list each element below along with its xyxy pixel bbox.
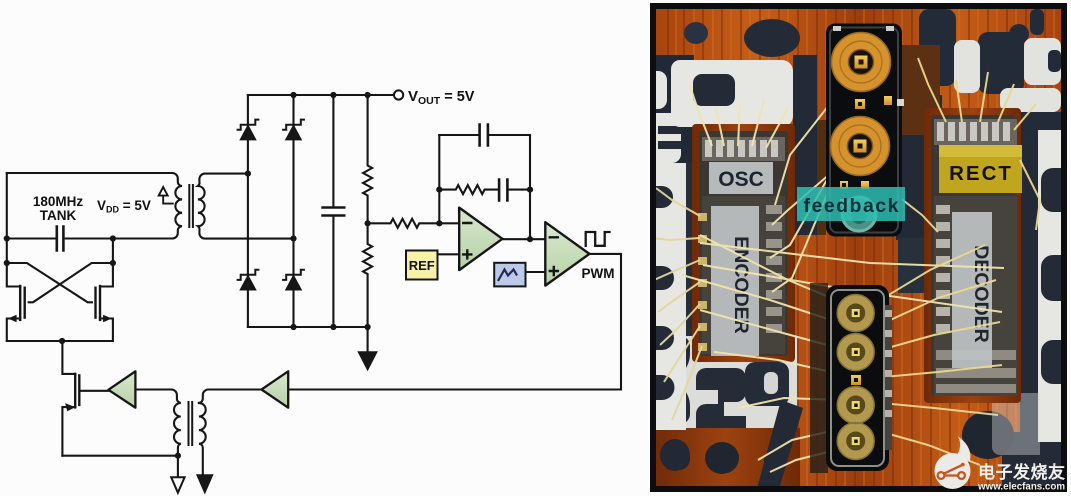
node common source xyxy=(59,338,65,344)
node top rail filter cap xyxy=(330,92,336,98)
transformer T1 primary winding xyxy=(171,173,182,239)
wire bridge left rail xyxy=(247,95,249,327)
diode D3 schottky bottom-left xyxy=(238,270,259,290)
white leadframe fingers right xyxy=(1038,130,1061,442)
coil L1 xyxy=(840,41,882,83)
comparator U2 PWM xyxy=(545,222,589,285)
diode D4 schottky bottom-right xyxy=(283,270,304,290)
node top rail divider xyxy=(365,92,371,98)
icon square wave xyxy=(586,232,610,246)
label RECT xyxy=(939,145,1022,193)
ground G2 open xyxy=(171,456,184,493)
coil L2 xyxy=(839,125,881,167)
wire PWM output right and down xyxy=(288,254,621,390)
text VOUT = 5V xyxy=(408,88,475,107)
svg-text:REF: REF xyxy=(409,258,435,273)
box sawtooth generator xyxy=(494,263,525,287)
white leadframe fingers left xyxy=(650,71,686,430)
dark ovals in orange top strip xyxy=(744,19,800,57)
power VDD supply arrow xyxy=(159,187,173,204)
wire tank right rail down xyxy=(100,239,113,287)
wire cross coupling right to left gate xyxy=(29,263,113,302)
bottom right silver shape xyxy=(992,393,1040,455)
transformer T2 primary winding xyxy=(135,390,180,456)
wire feedback left vertical xyxy=(438,135,440,223)
transistor M1 nmos left xyxy=(7,286,25,341)
node bottom rail right bridge xyxy=(290,324,296,330)
transistor Q3 nmos switch xyxy=(62,341,79,456)
text VDD = 5V xyxy=(97,198,151,215)
wire cross coupling left to right gate xyxy=(7,263,92,302)
node error amp inverting input xyxy=(436,220,442,226)
resistor R4 inner feedback xyxy=(439,185,498,194)
wire tank left rail down xyxy=(7,173,20,287)
capacitor C4 inner feedback xyxy=(499,180,507,201)
capacitor C2 outer feedback xyxy=(480,125,488,146)
ground G1 divider xyxy=(359,327,377,370)
wire buffer to Q3 gate xyxy=(81,390,109,392)
transformer T1 secondary winding xyxy=(198,174,294,239)
wire bridge bottom rail xyxy=(248,326,368,328)
wire sawtooth to PWM noninverting input xyxy=(526,271,546,273)
wire cross pair common source xyxy=(7,340,113,342)
wire bridge right rail xyxy=(292,95,294,327)
left chip ENCODER die xyxy=(692,124,795,362)
text 180MHz TANK xyxy=(33,194,84,223)
node error amp output xyxy=(527,236,533,242)
resistor R1 divider upper xyxy=(363,95,372,223)
node bottom rail divider xyxy=(365,324,371,330)
wire REF to noninverting input xyxy=(438,253,460,255)
node bottom rail filter cap xyxy=(330,324,336,330)
ground G3 filled xyxy=(197,475,212,493)
node tank right xyxy=(110,235,116,241)
svg-text:180MHz: 180MHz xyxy=(33,194,84,209)
bond wires left cluster xyxy=(682,64,1004,472)
bond wires right cluster xyxy=(868,58,1040,465)
wire primary bottom return xyxy=(62,455,177,457)
svg-text:VDD = 5V: VDD = 5V xyxy=(97,198,151,215)
wire buffer to transformer secondary xyxy=(199,390,262,403)
node tank left xyxy=(4,235,10,241)
capacitor C1 tank xyxy=(57,227,64,251)
node top rail right bridge xyxy=(290,92,296,98)
node secondary bottom to bridge right rail xyxy=(290,235,296,241)
watermark logo elecfans xyxy=(935,437,1066,493)
label ENCODER xyxy=(711,206,759,356)
white top-left pad xyxy=(671,60,793,127)
transformer T2 core xyxy=(189,402,193,445)
node secondary top to bridge left rail xyxy=(245,171,251,177)
transistor M2 nmos right xyxy=(96,286,113,341)
text PWM xyxy=(582,266,615,281)
wire inner loop right xyxy=(509,189,530,191)
node feedback inner branch left xyxy=(436,187,442,193)
label OSC xyxy=(709,162,773,194)
label DECODER xyxy=(952,212,992,368)
transformer T1 core xyxy=(189,185,193,227)
right chip DECODER die xyxy=(924,108,1021,403)
wire tank bottom rail left xyxy=(7,237,55,239)
node inner loop right xyxy=(527,187,533,193)
left die edge pads xyxy=(698,213,707,351)
op-amp U1 error amplifier xyxy=(459,208,502,271)
wire outer loop right vertical xyxy=(529,135,531,239)
resistor R2 divider lower xyxy=(363,223,372,327)
terminal VOUT circle xyxy=(394,90,403,99)
svg-text:feedback: feedback xyxy=(804,195,899,217)
wire error amp output to PWM xyxy=(502,238,545,240)
svg-text:电子发烧友: 电子发烧友 xyxy=(978,462,1065,482)
node cross left xyxy=(4,260,10,266)
capacitor C3 filter xyxy=(323,95,345,327)
diode D2 schottky top-right xyxy=(283,120,304,140)
transformer module top xyxy=(826,24,904,237)
small pads xyxy=(855,99,865,109)
wire cross pair source to Q3 drain xyxy=(61,340,63,342)
svg-text:OSC: OSC xyxy=(718,168,764,191)
node divider tap xyxy=(365,220,371,226)
wire outer loop top left xyxy=(439,134,478,136)
box REF xyxy=(406,251,438,280)
wire outer loop top right xyxy=(489,134,530,136)
svg-text:RECT: RECT xyxy=(949,162,1013,185)
bond wires to left leadframe xyxy=(652,188,702,420)
label feedback xyxy=(797,187,905,221)
transformer T2 secondary winding xyxy=(199,403,206,475)
transformer module bottom xyxy=(810,283,892,473)
diode D1 schottky top-left xyxy=(238,120,259,140)
resistor R3 tap to error amp xyxy=(368,219,459,228)
svg-text:TANK: TANK xyxy=(40,208,77,223)
svg-text:PWM: PWM xyxy=(582,266,615,281)
buffer U3 gate drive right xyxy=(262,371,289,407)
buffer U4 gate drive left xyxy=(108,371,135,407)
wire tank bottom rail right xyxy=(66,237,171,239)
dark substrate regions xyxy=(650,55,694,185)
wire tank top rail xyxy=(7,172,171,174)
wire bridge top rail xyxy=(248,94,394,96)
node cross right xyxy=(110,260,116,266)
svg-text:www.elecfans.com: www.elecfans.com xyxy=(977,481,1065,493)
node primary bottom xyxy=(175,453,181,459)
